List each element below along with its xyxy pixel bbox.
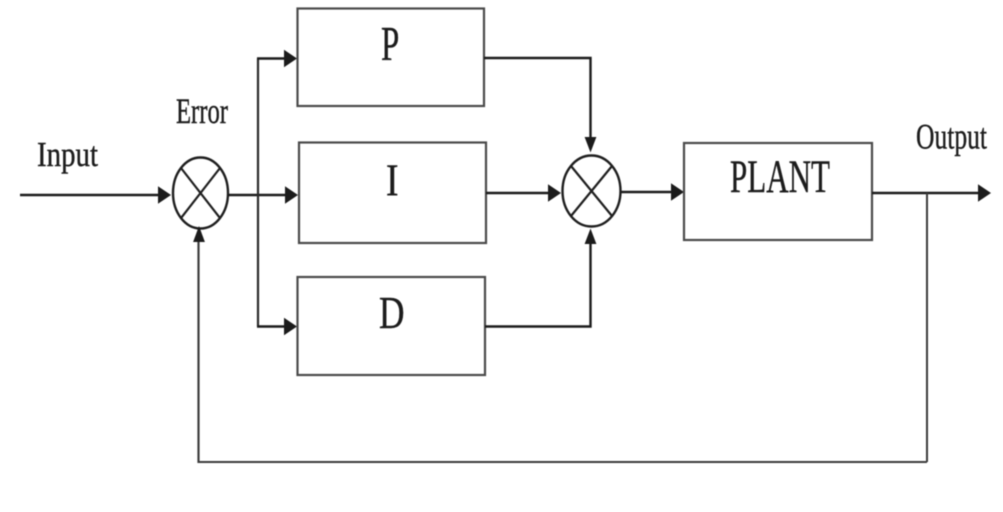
block P box — [298, 9, 485, 107]
wire S2 to block PLANT — [621, 183, 685, 200]
wire input arrow into summing junction S1 — [20, 186, 171, 203]
summing junction S2 — [563, 156, 621, 227]
wire D output to summing junction S2 — [485, 229, 596, 327]
wire branch to block P — [257, 50, 297, 67]
svg-text:P: P — [381, 16, 399, 71]
svg-text:I: I — [386, 156, 399, 206]
svg-text:Error: Error — [176, 91, 228, 131]
wire feedback bottom segment — [199, 461, 928, 463]
node feedback tap junction — [926, 193, 928, 462]
wire S1 to block I with branch node — [228, 186, 298, 203]
wire P output to summing junction S2 — [484, 58, 596, 153]
block D label — [379, 288, 405, 338]
block P label — [381, 16, 399, 71]
block I label — [386, 156, 399, 206]
svg-text:Output: Output — [916, 117, 987, 157]
wire branch vertical from P level to D level — [257, 59, 259, 327]
summing junction S1 — [173, 158, 228, 229]
wire PLANT output to Output arrow — [872, 184, 991, 201]
wire branch to block D — [257, 318, 297, 335]
block I box — [299, 143, 486, 244]
node Output label — [916, 117, 987, 157]
wire feedback up segment into S1 — [193, 226, 205, 463]
svg-text:Input: Input — [37, 135, 98, 174]
wire I output to summing junction S2 — [486, 184, 561, 201]
block PLANT label — [730, 151, 830, 203]
wire feedback down segment — [926, 193, 928, 462]
svg-text:D: D — [379, 288, 405, 338]
block D box — [298, 277, 486, 375]
node Input label — [37, 135, 98, 174]
node Error label — [176, 91, 228, 131]
block PLANT box — [684, 143, 872, 240]
svg-text:PLANT: PLANT — [730, 151, 830, 203]
